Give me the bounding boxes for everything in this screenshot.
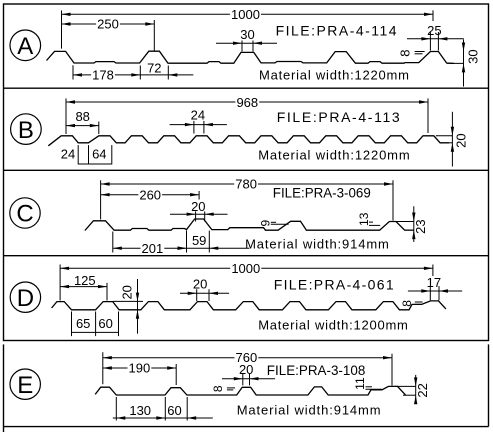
dimension 968 (B overall width) (66, 95, 428, 134)
dimension 178 (A bottom left flat) (73, 60, 193, 82)
dimension 250 (A rib pitch) (62, 17, 155, 51)
dimension 13 ticks and label (C rib step) (357, 212, 380, 226)
dimension 30 (A middle rib top width) (216, 27, 277, 51)
label circle C (10, 198, 40, 228)
svg-text:60: 60 (98, 316, 112, 331)
svg-text:178: 178 (92, 68, 114, 83)
svg-text:E: E (17, 372, 33, 399)
svg-text:24: 24 (61, 147, 75, 162)
dimension 65/60 (D bottom left) (72, 312, 119, 337)
dimension 20 vertical (D profile depth) (113, 279, 143, 334)
dimension 8 ticks and label (E rib groove) (211, 385, 235, 392)
svg-text:Material width:1200mm: Material width:1200mm (258, 318, 408, 333)
section E box (open top) (4, 344, 489, 432)
dimension 780 (C overall width) (101, 177, 393, 221)
svg-text:24: 24 (191, 108, 205, 123)
divider line C/D (4, 255, 489, 257)
svg-text:25: 25 (427, 23, 441, 38)
profile E (low rib liner panel) (95, 386, 406, 395)
svg-text:8: 8 (211, 385, 225, 392)
label circle A (10, 30, 41, 61)
svg-text:FILE:PRA-4-061: FILE:PRA-4-061 (274, 276, 394, 292)
FILE:PRA-4-061 label (274, 276, 394, 292)
dimension 1000 (A overall width) (62, 7, 434, 49)
dimension 260 (C left to centre rib) (101, 188, 200, 203)
dimension 25 (A right rib top width) (407, 23, 464, 51)
svg-text:C: C (16, 201, 33, 228)
dimension 201/59 (C bottom) (113, 231, 250, 256)
svg-text:20: 20 (120, 285, 135, 299)
svg-text:1000: 1000 (231, 7, 260, 22)
svg-text:72: 72 (147, 60, 161, 75)
FILE:PRA-3-108 label (267, 362, 366, 378)
profile B (corrugated panel) (48, 136, 449, 146)
label circle D (10, 282, 40, 312)
svg-text:B: B (18, 117, 34, 144)
Material width:914mm label (E) (237, 402, 381, 417)
dimension 130/60 (E bottom left) (113, 397, 213, 421)
svg-text:125: 125 (74, 273, 96, 288)
dimension 8 ticks and label (D edge step) (400, 300, 423, 307)
svg-text:11: 11 (353, 377, 367, 390)
dimension 24 (B crest top width) (170, 108, 227, 134)
svg-text:FILE:PRA-4-114: FILE:PRA-4-114 (276, 22, 397, 38)
svg-text:780: 780 (235, 177, 257, 192)
svg-text:64: 64 (92, 147, 106, 162)
svg-text:60: 60 (167, 403, 181, 418)
dimension 8 ticks and label (A anti-capillary groove) (397, 49, 424, 56)
Material width:1220mm label (A) (259, 67, 409, 82)
dimension 20 (C centre rib top width) (170, 199, 228, 221)
svg-text:968: 968 (236, 95, 258, 110)
Material width:1220mm label (B) (258, 148, 410, 163)
profile C (low-rib liner panel) (85, 219, 414, 231)
dimension 11 ticks and label (E edge step) (353, 377, 382, 390)
dimension 760 (E overall width) (103, 350, 392, 385)
dimension 22 vertical (E profile height) (395, 375, 430, 404)
svg-text:9: 9 (259, 220, 273, 227)
svg-text:20: 20 (193, 276, 207, 291)
profile A (trapezoidal rib panel) (47, 51, 455, 63)
svg-text:22: 22 (415, 383, 430, 397)
dimension 190 (E left pitch) (103, 361, 176, 385)
svg-text:23: 23 (413, 219, 428, 233)
FILE:PRA-4-114 label (276, 22, 397, 38)
profile D (trapezoid corrugated panel) (52, 301, 446, 310)
dimension 9 ticks and label (C small swage) (259, 220, 289, 227)
svg-text:D: D (17, 285, 34, 312)
dimension 30 vertical (A profile height) (447, 40, 480, 87)
svg-text:Material width:914mm: Material width:914mm (237, 402, 381, 417)
dimension 20 vertical (B corrugation height) (436, 112, 469, 167)
dimension 1000 (D overall width) (60, 261, 433, 300)
svg-text:Material width:1220mm: Material width:1220mm (258, 148, 410, 163)
svg-text:250: 250 (97, 17, 119, 32)
dimension 20 (E centre rib top width) (222, 362, 275, 385)
dimension 88 (B left corrugation pitch) (66, 109, 99, 134)
divider line A/B (4, 87, 489, 89)
outer border box (sections A-D) (4, 4, 489, 341)
dimension 125 (D pitch) (60, 273, 107, 301)
divider line B/C (4, 169, 489, 171)
dimension 17 (D right rib top) (408, 275, 462, 300)
svg-text:17: 17 (427, 275, 441, 290)
svg-text:A: A (17, 33, 33, 60)
Material width:914mm label (C) (245, 237, 389, 252)
svg-text:FILE:PRA-3-108: FILE:PRA-3-108 (267, 362, 366, 378)
label circle B (11, 114, 42, 145)
svg-text:65: 65 (76, 316, 90, 331)
svg-text:FILE:PRA-3-069: FILE:PRA-3-069 (273, 184, 371, 200)
FILE:PRA-4-113 label (277, 109, 400, 125)
svg-text:59: 59 (192, 233, 206, 248)
svg-text:30: 30 (240, 27, 254, 42)
Material width:1200mm label (D) (258, 318, 408, 333)
svg-text:260: 260 (139, 188, 161, 203)
svg-text:1000: 1000 (231, 261, 260, 276)
svg-text:20: 20 (239, 362, 253, 377)
svg-text:Material width:914mm: Material width:914mm (245, 237, 389, 252)
svg-text:88: 88 (75, 109, 89, 124)
svg-text:8: 8 (397, 49, 412, 56)
FILE:PRA-3-069 label (273, 184, 371, 200)
svg-text:20: 20 (454, 133, 469, 147)
svg-text:FILE:PRA-4-113: FILE:PRA-4-113 (277, 109, 400, 125)
dimension 23 vertical (C profile height) (396, 206, 428, 242)
dimension 20 (D crest top width) (180, 276, 229, 301)
svg-text:20: 20 (191, 199, 205, 214)
dimension 24/64 (B bottom left) (61, 145, 112, 164)
svg-text:8: 8 (400, 300, 414, 307)
svg-text:Material width:1220mm: Material width:1220mm (259, 67, 409, 82)
svg-text:201: 201 (142, 241, 164, 256)
svg-text:30: 30 (465, 49, 480, 63)
svg-text:130: 130 (129, 403, 151, 418)
svg-text:190: 190 (129, 361, 151, 376)
svg-text:13: 13 (357, 212, 371, 226)
label circle E (10, 369, 40, 399)
